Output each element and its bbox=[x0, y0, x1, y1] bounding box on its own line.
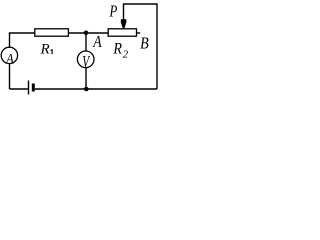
wire slider stem bbox=[123, 3, 125, 19]
svg-text:R: R bbox=[40, 41, 50, 57]
svg-text:B: B bbox=[140, 33, 149, 52]
resistor R1 bbox=[35, 29, 69, 36]
battery cell bbox=[29, 81, 35, 95]
wire (node A down to voltmeter) bbox=[85, 33, 87, 51]
wire top-left (from ammeter up and right to R1) bbox=[10, 33, 35, 47]
voltmeter bbox=[77, 51, 94, 71]
wire bottom-left (to battery) bbox=[10, 88, 29, 90]
node A junction dot bbox=[84, 31, 89, 36]
label R2 bbox=[113, 40, 129, 60]
svg-text:2: 2 bbox=[123, 49, 129, 61]
junction dot on bottom wire bbox=[84, 87, 89, 92]
svg-text:R: R bbox=[113, 40, 123, 57]
terminal B stub bbox=[137, 32, 141, 34]
rheostat R2 bbox=[108, 29, 136, 36]
wire top-right (slider corner to right wire) bbox=[124, 3, 158, 5]
svg-text:A: A bbox=[92, 32, 102, 51]
slider wiper arrow P bbox=[121, 19, 127, 28]
ammeter bbox=[1, 47, 17, 67]
wire left vertical (ammeter to bottom wire) bbox=[9, 64, 11, 90]
label R1 bbox=[40, 41, 54, 57]
wire (voltmeter to bottom wire) bbox=[85, 68, 87, 90]
wire (R1 to R2 through node A) bbox=[68, 32, 108, 34]
wire right vertical bbox=[156, 4, 158, 89]
svg-text:P: P bbox=[109, 1, 118, 20]
wire bottom (battery to right corner) bbox=[35, 88, 157, 90]
